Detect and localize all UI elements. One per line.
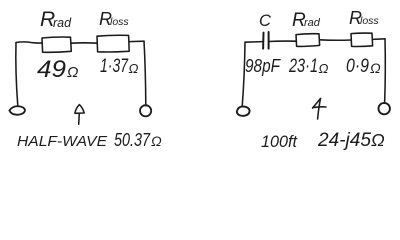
svg-text:Ω: Ω [371,130,385,150]
svg-text:Ω: Ω [151,133,162,149]
wire between resistors [71,42,97,44]
svg-text:rad: rad [304,17,321,29]
capacitor C plate 1 [262,33,264,49]
svg-text:24-j45: 24-j45 [317,130,371,151]
wire right vertical (left circuit) [144,41,146,105]
svg-text:49: 49 [37,56,66,83]
svg-text:23·1: 23·1 [288,56,318,77]
wire left-top horizontal (left circuit) [16,42,42,43]
svg-text:rad: rad [53,16,72,30]
wire between Rrad and Rloss (right) [320,39,351,41]
wire left vertical (left circuit) [16,43,18,106]
arrow (right circuit) head [313,99,326,109]
svg-text:1·37: 1·37 [100,56,129,77]
svg-text:HALF-WAVE: HALF-WAVE [17,134,107,150]
terminal right (right circuit) [379,103,390,114]
svg-text:50.37: 50.37 [114,130,151,150]
value 23.1 ohm [288,56,328,77]
svg-text:Ω: Ω [67,64,78,81]
arrow (left circuit) stem [78,113,81,124]
caption 50.37 ohm [114,130,162,150]
wire resistor to right corner [129,40,144,42]
capacitor C plate 2 [268,32,270,49]
wire right vertical (right circuit) [384,39,387,103]
wire Rloss to right corner [373,38,385,41]
wire left vertical (right circuit) [242,42,245,106]
label Rloss (left) [99,9,129,29]
resistor R2 box Rloss [97,35,129,52]
svg-text:0·9: 0·9 [346,56,369,77]
svg-text:98pF: 98pF [245,56,281,76]
wire capacitor to Rrad [269,40,296,42]
svg-text:C: C [259,12,271,30]
svg-text:Ω: Ω [370,60,381,76]
label Rloss (right) [349,8,379,28]
label Rrad (right) [292,10,321,31]
resistor R3 box Rrad [296,34,320,47]
caption 24-j45 ohm [317,130,385,151]
wire left-top horizontal (right circuit) [245,41,263,44]
svg-text:100ft: 100ft [261,132,298,151]
label Rrad (left) [40,8,72,31]
arrow (right circuit) stem [318,99,321,120]
terminal left (right circuit) [237,106,250,116]
svg-text:loss: loss [110,16,129,28]
terminal left (left circuit) [9,106,25,115]
svg-text:Ω: Ω [129,61,139,76]
resistor R1 box Rrad [42,37,71,52]
value 0.9 ohm [346,56,381,77]
terminal right (left circuit) [140,105,151,116]
value 49 ohm [37,56,78,83]
svg-text:Ω: Ω [319,61,329,76]
value 1.37 ohm [100,56,139,77]
resistor R4 box Rloss [351,33,373,46]
svg-text:loss: loss [360,15,379,27]
arrow (left circuit) head [75,105,84,114]
